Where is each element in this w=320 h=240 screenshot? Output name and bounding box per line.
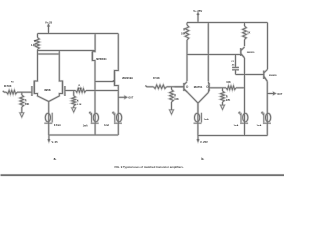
svg-text:R: R [79,85,81,87]
svg-text:50K: 50K [25,103,30,106]
svg-text:1.0K: 1.0K [31,44,36,47]
svg-text:b.: b. [201,157,204,161]
svg-text:OUT: OUT [128,98,133,100]
svg-text:OUT: OUT [277,94,282,96]
svg-text:3958: 3958 [44,88,51,92]
svg-text:V- 25V: V- 25V [200,140,208,144]
svg-text:R 51K: R 51K [153,77,160,80]
svg-text:10K: 10K [174,98,179,101]
svg-text:V+ 25: V+ 25 [45,21,53,25]
svg-text:R1: R1 [11,81,15,83]
svg-text:1mA: 1mA [83,125,88,128]
svg-text:51K: 51K [78,88,82,90]
svg-text:10K: 10K [226,81,231,84]
svg-text:FIG. 9 Typical uses of matche: FIG. 9 Typical uses of matched transisto… [115,165,184,169]
svg-text:1mA: 1mA [204,118,209,121]
svg-text:a.: a. [54,157,57,161]
svg-text:IN 50K: IN 50K [4,85,12,88]
svg-text:2N3055: 2N3055 [269,75,277,77]
svg-text:R: R [183,29,185,32]
svg-text:R: R [34,40,36,43]
svg-text:27K: 27K [226,99,231,102]
svg-text:MPS6534: MPS6534 [96,58,107,61]
svg-text:R: R [77,100,79,102]
svg-text:2N2219: 2N2219 [247,52,255,54]
svg-text:2N2219A: 2N2219A [122,76,133,80]
svg-text:V- 25: V- 25 [52,140,59,144]
svg-text:0.5mA: 0.5mA [54,124,61,127]
svg-text:1mA: 1mA [234,124,239,127]
svg-text:1mA: 1mA [257,124,262,127]
svg-text:1K: 1K [247,31,250,34]
svg-text:10K: 10K [181,32,186,35]
svg-text:1.1K: 1.1K [77,104,82,106]
svg-text:V+ 25V: V+ 25V [193,9,202,13]
svg-text:MAT01: MAT01 [194,85,203,89]
svg-text:C1: C1 [231,61,235,63]
svg-text:1mA: 1mA [104,124,109,127]
